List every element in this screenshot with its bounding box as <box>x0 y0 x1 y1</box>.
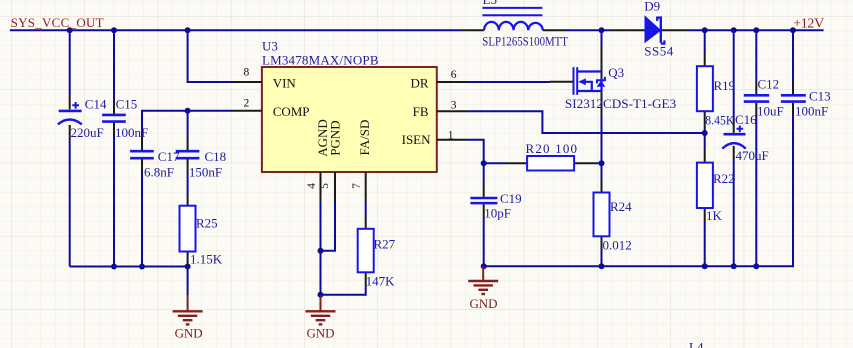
svg-text:150nF: 150nF <box>189 165 222 180</box>
svg-text:R20 100: R20 100 <box>526 141 578 156</box>
wire C19 bottom to rail <box>483 217 485 267</box>
junction top rail C13 <box>790 27 796 33</box>
junction R27 AGND <box>318 292 324 298</box>
svg-text:220uF: 220uF <box>71 125 104 140</box>
wire R22 top <box>704 133 706 149</box>
svg-text:8: 8 <box>244 67 250 79</box>
wire C12 top <box>755 30 757 81</box>
svg-text:6: 6 <box>451 69 457 81</box>
junction top rail C12 <box>753 27 759 33</box>
svg-text:SLP1265S100MTT: SLP1265S100MTT <box>482 34 568 48</box>
wire FB to divider <box>467 111 705 133</box>
svg-text:SYS_VCC_OUT: SYS_VCC_OUT <box>11 15 104 30</box>
capacitor C14 <box>58 96 82 139</box>
junction top rail R19 <box>702 27 708 33</box>
svg-text:GND: GND <box>175 325 203 340</box>
diode D9 <box>609 16 687 43</box>
wire AGND pin 4 down <box>320 201 322 296</box>
junction bottom rail R24 <box>599 263 605 269</box>
junction bottom rail C12 <box>753 263 759 269</box>
wire C13 top <box>792 30 794 81</box>
wire C19 top <box>483 163 485 184</box>
svg-text:C12: C12 <box>758 77 780 92</box>
svg-text:10pF: 10pF <box>484 205 511 220</box>
svg-text:R22: R22 <box>713 171 735 186</box>
svg-text:1: 1 <box>448 130 454 142</box>
wire R27 bottom to gnd <box>321 285 366 295</box>
svg-text:C19: C19 <box>500 191 522 206</box>
svg-text:SI2312CDS-T1-GE3: SI2312CDS-T1-GE3 <box>565 96 676 111</box>
svg-text:U3: U3 <box>262 39 278 54</box>
junction top rail VIN drop <box>185 27 191 33</box>
svg-text:COMP: COMP <box>273 104 310 119</box>
capacitor C18 <box>176 137 200 173</box>
svg-text:7: 7 <box>351 183 363 189</box>
capacitor C19 <box>470 184 497 217</box>
svg-text:10uF: 10uF <box>757 104 784 119</box>
svg-text:5: 5 <box>319 183 331 189</box>
capacitor C13 <box>781 81 806 116</box>
wire C16 top <box>733 30 735 119</box>
junction top rail C16 <box>731 27 737 33</box>
junction bottom-left rail R25 <box>185 264 191 270</box>
junction PGND AGND <box>318 248 324 254</box>
svg-text:4: 4 <box>306 183 318 189</box>
svg-text:8.45K: 8.45K <box>705 112 735 127</box>
resistor R19 <box>697 53 713 130</box>
wire Q3 source to ISEN node <box>601 115 603 163</box>
resistor R25 <box>180 193 196 267</box>
svg-text:ISEN: ISEN <box>402 132 432 147</box>
resistor R27 <box>358 216 374 285</box>
wire C14 to bottom rail <box>69 139 71 267</box>
U3 pin 2 COMP stub <box>232 110 262 112</box>
svg-text:147K: 147K <box>366 274 396 289</box>
svg-text:R27: R27 <box>374 237 396 252</box>
svg-text:R24: R24 <box>610 199 632 214</box>
wire R24 to bottom rail <box>601 163 603 266</box>
wire C15 branch <box>113 30 115 101</box>
capacitor C12 <box>744 81 769 116</box>
resistor R20 <box>506 156 596 171</box>
junction FB divider <box>702 130 708 136</box>
svg-text:C18: C18 <box>205 149 227 164</box>
wire C14 branch <box>69 30 71 96</box>
junction bottom rail C19 gnd <box>481 263 487 269</box>
wire C16 bottom <box>733 160 735 266</box>
U3 pin 5 PGND stub <box>334 172 336 201</box>
wire SYS_VCC_OUT top rail <box>10 29 824 31</box>
wire bottom mid rail <box>483 116 793 266</box>
svg-text:DR: DR <box>410 75 428 90</box>
wire bottom-left rail <box>70 267 188 296</box>
junction ISEN C19 <box>481 160 487 166</box>
ground symbol middle (C19) <box>468 266 498 294</box>
wire R22 bottom <box>704 222 706 266</box>
svg-text:C15: C15 <box>116 97 138 112</box>
transistor Q3 <box>550 46 605 115</box>
wire R19 bottom to FB node <box>704 130 706 134</box>
resistor R24 <box>594 179 610 251</box>
capacitor C15 <box>102 101 126 136</box>
svg-text:GND: GND <box>307 325 335 340</box>
junction COMP C18 <box>185 108 191 114</box>
junction top rail Q3 drain <box>599 27 605 33</box>
junction top rail C14 <box>67 27 73 33</box>
U3 pin 1 ISEN stub <box>437 139 467 141</box>
capacitor C16 <box>722 119 746 160</box>
svg-text:LM3478MAX/NOPB: LM3478MAX/NOPB <box>262 52 379 67</box>
svg-text:SS54: SS54 <box>644 44 674 59</box>
svg-text:C16: C16 <box>735 112 757 127</box>
U3 pin 3 FB stub <box>437 110 467 112</box>
svg-text:VIN: VIN <box>273 75 297 90</box>
svg-text:C14: C14 <box>85 97 107 112</box>
U3 pin 7 FA/SD stub <box>365 172 367 201</box>
wire C12 bottom <box>755 116 757 266</box>
svg-text:GND: GND <box>470 296 498 311</box>
wire PGND pin 5 to AGND <box>321 201 336 251</box>
svg-text:1K: 1K <box>706 208 723 223</box>
junction bottom rail R22 <box>702 263 708 269</box>
wire VIN drop from rail <box>188 30 232 82</box>
wire Q3 drain from rail <box>601 30 603 50</box>
wire COMP node <box>142 111 232 137</box>
U3 pin 8 VIN stub <box>232 81 262 83</box>
wire FA/SD pin 7 to R27 <box>365 201 367 216</box>
junction ISEN R24 Q3 source <box>599 160 605 166</box>
wire R19 top <box>704 30 706 53</box>
ground symbol AGND (U3) <box>306 296 336 325</box>
svg-text:100nF: 100nF <box>795 104 828 119</box>
svg-text:3: 3 <box>451 100 457 112</box>
svg-text:1.15K: 1.15K <box>190 252 223 267</box>
wire C15 to bottom rail <box>113 136 115 267</box>
svg-text:L4: L4 <box>689 340 704 348</box>
svg-text:100nF: 100nF <box>115 125 148 140</box>
wire ISEN node <box>467 140 602 164</box>
svg-text:2: 2 <box>244 97 250 109</box>
svg-text:PGND: PGND <box>327 120 342 155</box>
junction bottom rail C16 <box>731 263 737 269</box>
inductor L5 <box>461 8 566 30</box>
wire C18 to R25 <box>187 173 189 193</box>
svg-text:D9: D9 <box>644 0 660 13</box>
ground symbol left (R25) <box>173 296 203 325</box>
svg-text:C13: C13 <box>809 89 831 104</box>
svg-text:Q3: Q3 <box>608 65 624 80</box>
svg-text:+12V: +12V <box>793 17 824 32</box>
junction bottom-left rail C17 <box>139 264 145 270</box>
svg-text:6.8nF: 6.8nF <box>144 165 174 180</box>
U3 pin 4 AGND stub <box>320 172 322 201</box>
svg-text:FB: FB <box>413 104 429 119</box>
svg-text:FA/SD: FA/SD <box>357 120 372 156</box>
U3 pin 6 DR stub <box>437 81 467 83</box>
wire DR to Q3 gate <box>467 81 550 83</box>
svg-text:R19: R19 <box>714 78 736 93</box>
wire C18 branch <box>187 111 189 137</box>
capacitor C17 <box>130 137 154 173</box>
svg-text:470uF: 470uF <box>736 148 769 163</box>
resistor R22 <box>697 149 713 222</box>
svg-text:R25: R25 <box>196 216 218 231</box>
svg-text:L5: L5 <box>483 0 497 7</box>
wire C17 to bottom rail <box>141 173 143 267</box>
junction bottom-left rail C15 <box>111 264 117 270</box>
svg-text:0.012: 0.012 <box>603 238 632 253</box>
op-amp U3 body <box>262 67 437 172</box>
junction top rail C15 <box>111 27 117 33</box>
